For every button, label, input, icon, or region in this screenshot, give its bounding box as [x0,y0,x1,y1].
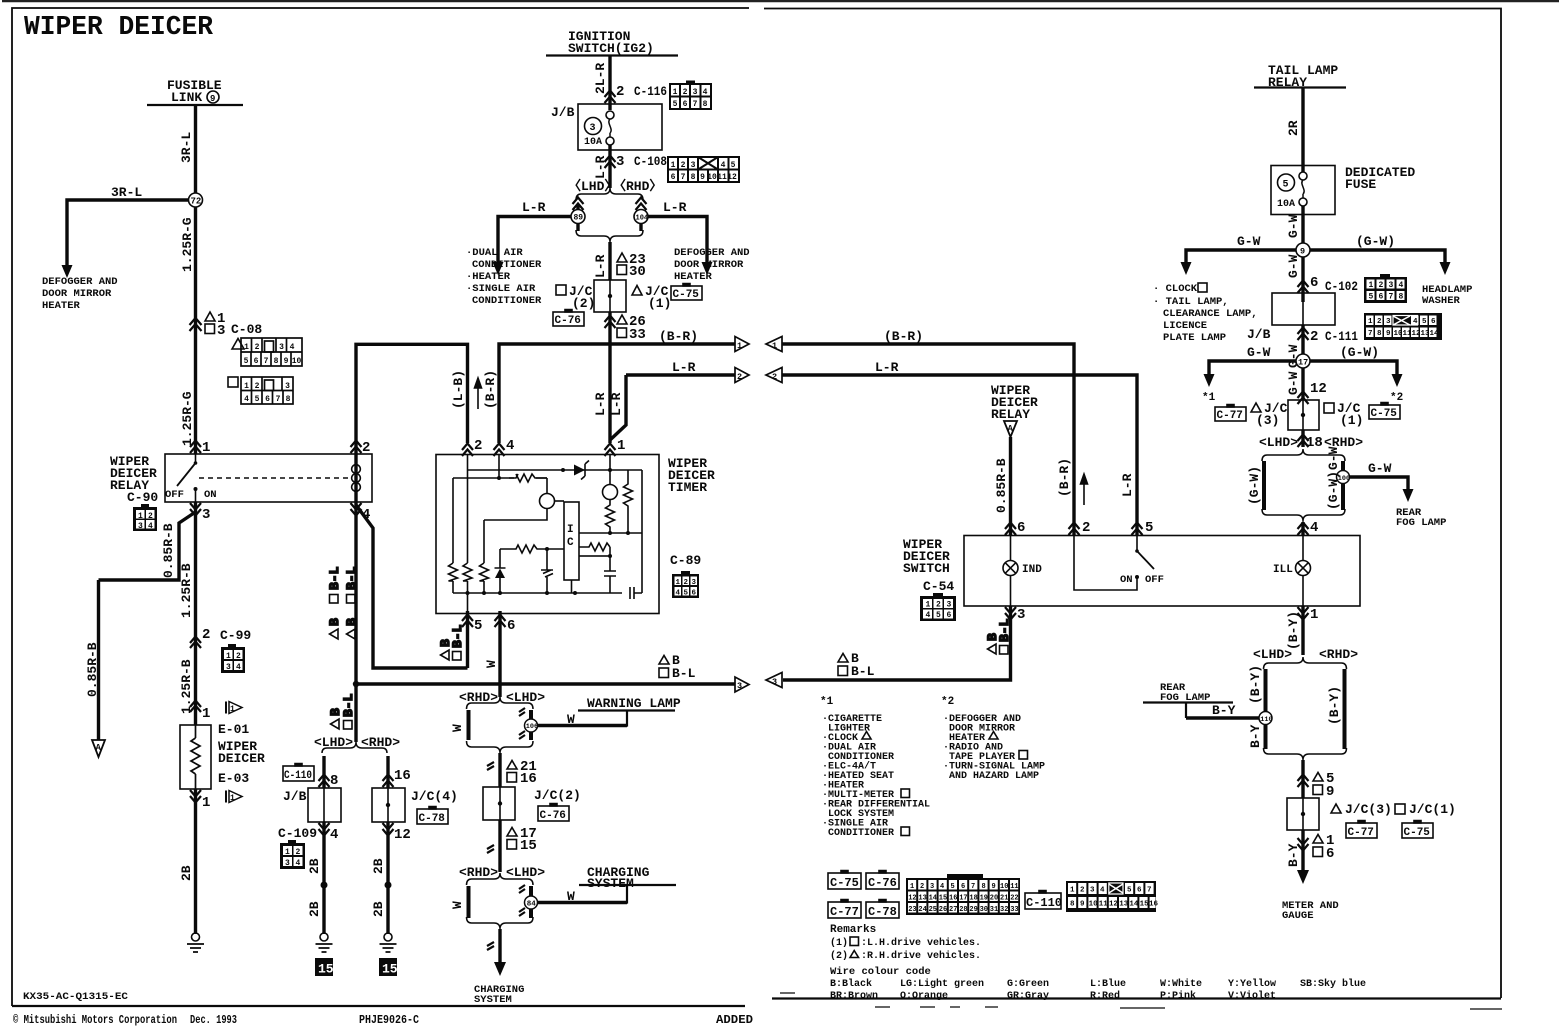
svg-text:7: 7 [1368,330,1373,338]
svg-text:1: 1 [244,343,249,352]
node 100 junction [1337,471,1350,484]
svg-text:W: W [450,901,465,909]
brace split [608,182,611,188]
svg-text:KX35-AC-Q1315-EC: KX35-AC-Q1315-EC [23,991,129,1003]
connector tag C-75 [671,284,702,301]
node 104 junction [634,210,648,224]
svg-text:HEATER: HEATER [674,271,713,283]
svg-text:17: 17 [1298,358,1308,368]
wire (B-R) from arrow 1 [782,344,1074,535]
svg-text:ON: ON [1120,574,1133,586]
wire (G-W) LHD bar [1262,461,1266,510]
svg-text:15: 15 [939,895,947,903]
pin 1 chevrons at relay [190,441,201,454]
svg-text:ADDED: ADDED [716,1014,753,1027]
timer internal: top rail [468,455,643,471]
fuse 3 circled [585,118,602,135]
svg-text:FOG LAMP: FOG LAMP [1396,517,1446,529]
svg-text:*2: *2 [941,696,954,708]
svg-text:2: 2 [474,438,482,454]
wire 3R-L vertical [194,105,197,454]
svg-text:G-W: G-W [1247,345,1271,360]
node 110 junction [1259,712,1272,725]
svg-text:CONDITIONER: CONDITIONER [472,295,542,307]
arrow to defogger [62,265,73,278]
svg-text:W: W [567,889,575,904]
svg-text:72: 72 [191,197,202,207]
svg-text:7: 7 [1389,293,1394,302]
svg-text:23: 23 [908,906,916,914]
wire 2R [1301,88,1304,166]
svg-text:7: 7 [264,357,269,366]
svg-text:1: 1 [1070,887,1075,895]
svg-text:R:Red: R:Red [1090,990,1120,1002]
right page frame [764,9,1501,999]
svg-text:2B: 2B [307,901,322,917]
svg-text:*1: *1 [1202,392,1216,404]
svg-text:4: 4 [330,827,338,843]
node 72 junction [189,193,203,207]
svg-text:SYSTEM: SYSTEM [474,994,512,1006]
connector C-08 grid A [241,338,302,366]
svg-text:(B-Y): (B-Y) [1286,611,1301,650]
svg-text:(B-Y): (B-Y) [1327,686,1342,725]
svg-text:2B: 2B [371,901,386,917]
wire B-Y LHD bar lower [1264,725,1268,749]
connector C-90 grid [133,504,157,531]
wire W RHD bar lower charging [529,909,533,918]
svg-text:2: 2 [681,161,686,170]
svg-text:3: 3 [947,601,952,610]
svg-text:5: 5 [1145,520,1153,536]
svg-text:104: 104 [636,215,649,223]
svg-text:1: 1 [673,88,678,97]
svg-text:7: 7 [693,100,698,109]
left vertical 2 with resistor R4 [483,520,485,593]
svg-text:2L-R: 2L-R [593,63,608,94]
svg-text:PLATE LAMP: PLATE LAMP [1163,332,1226,344]
connector chevrons C-08 on wire [190,318,202,331]
svg-text:CLEARANCE LAMP,: CLEARANCE LAMP, [1163,308,1258,320]
svg-text:15: 15 [520,838,537,854]
thermistor leg [541,549,553,593]
wire G-W to rear fog lamp [1350,477,1409,490]
svg-text:4: 4 [1413,318,1418,326]
svg-text:8: 8 [1377,330,1382,338]
svg-text:15: 15 [318,962,334,977]
svg-text:B: B [327,618,342,626]
svg-text:C-75: C-75 [1371,408,1398,420]
square after MULTI-METER [901,789,910,798]
svg-text:6: 6 [692,590,697,598]
connector tag C-110 [283,764,314,782]
wire W RHD bar upper [529,710,533,719]
svg-text:(3): (3) [1256,413,1279,428]
svg-text:8: 8 [330,773,338,789]
triangle marker for C-08 grid A [232,339,244,350]
arrow out 3 right page [766,673,782,688]
svg-text:5: 5 [255,395,260,404]
svg-text:10A: 10A [584,137,602,148]
svg-text:84: 84 [527,901,537,909]
svg-text:I: I [567,524,574,536]
svg-text:<LHD>: <LHD> [506,865,545,880]
svg-text:4: 4 [721,161,726,170]
pin5 inner vertical [467,470,469,613]
svg-text:1: 1 [910,883,914,891]
svg-text:(1): (1) [1340,413,1363,428]
svg-text:6: 6 [265,395,270,404]
svg-text:18: 18 [1306,435,1323,451]
wire 0.85R-B to switch pin 6 [1009,437,1012,535]
svg-text:C-110: C-110 [1026,896,1062,910]
wire W to charging bracket [498,820,501,872]
svg-text:6: 6 [671,173,676,182]
svg-text:2: 2 [296,848,301,857]
label triangle J/C (3) [1251,403,1261,412]
triangle after CLOCK [862,732,871,740]
svg-text:6: 6 [947,611,952,620]
diode D2 on pin6 branch [495,549,506,593]
svg-text:9: 9 [210,94,215,104]
svg-text:(B-R): (B-R) [1057,458,1072,497]
arrow to charging system [494,962,506,976]
svg-text:(L-B): (L-B) [451,370,466,409]
svg-text:1: 1 [1369,281,1374,290]
wire B/B-L from pin 3 [783,606,1011,680]
svg-text:LG:Light green: LG:Light green [900,978,984,990]
svg-text:4: 4 [1399,281,1404,290]
node A triangle [92,740,105,757]
svg-text:C-78: C-78 [419,813,446,825]
svg-text:B-L: B-L [327,566,342,590]
svg-text:1: 1 [202,706,210,722]
svg-text:B: B [344,618,359,626]
square after CONDITIONER last [901,827,910,836]
svg-text:3: 3 [138,522,143,531]
svg-text:3: 3 [202,507,210,523]
svg-text:GR:Gray: GR:Gray [1007,991,1049,1002]
svg-text:E-01: E-01 [218,722,249,737]
svg-text:1: 1 [737,341,742,351]
wire G-W to node 9 [1301,215,1304,303]
brace merge warning [467,741,534,753]
label triangle 1 bottom [1313,835,1323,844]
label square J/C (1) [1324,403,1334,413]
svg-text:C-77: C-77 [830,905,859,919]
wire 2L-R [608,56,611,105]
svg-text:29: 29 [969,906,977,914]
svg-text:33: 33 [1010,906,1018,914]
svg-text:4: 4 [1100,887,1105,895]
svg-text:C-102: C-102 [1325,279,1358,294]
svg-text:4: 4 [1310,520,1318,536]
wire L-R JC to timer pin1 [608,312,611,443]
arrow out 3 [735,677,749,692]
svg-text:25: 25 [929,906,937,914]
label triangle 21 [507,761,517,770]
svg-text:2: 2 [1379,281,1384,290]
svg-text:(G-W): (G-W) [1326,471,1341,510]
connector C-109 grid [280,840,305,869]
svg-text:2: 2 [1310,329,1318,345]
svg-text:5: 5 [731,161,736,170]
wire (B-Y) from pin 1 [1301,606,1304,655]
connector C-116 grid [670,82,711,110]
svg-text:W: W [567,712,575,727]
svg-text:C-77: C-77 [1217,410,1243,422]
svg-text:1: 1 [772,341,777,351]
svg-text:10: 10 [1000,883,1008,891]
svg-text:9: 9 [700,173,705,182]
svg-text:3: 3 [772,677,777,687]
svg-text:HEATER: HEATER [42,300,81,312]
svg-text:3: 3 [737,681,742,691]
svg-text:Remarks: Remarks [830,924,876,936]
wire (G-W) right branch 17 [1310,361,1397,375]
svg-text:2: 2 [236,652,241,661]
svg-text:1: 1 [230,705,235,714]
wire 0.85R-B branch from relay pin 3 [99,512,196,580]
relay coil [355,454,357,464]
svg-text:4: 4 [676,590,681,598]
rear fog lamp feed line [1143,703,1233,719]
svg-text:Y:Yellow: Y:Yellow [1228,978,1276,990]
wire (L-B) from relay pin2 [356,344,468,502]
flow arrow up [475,378,482,409]
left vertical with resistor R2 [453,478,547,593]
switch link to pin 2 [1074,536,1137,591]
svg-text:· TAIL LAMP,: · TAIL LAMP, [1153,296,1229,308]
node 17 junction [1296,354,1310,368]
node 106 junction [525,719,538,732]
svg-text:12: 12 [908,895,916,903]
svg-text:C-77: C-77 [1348,827,1374,839]
svg-text:14: 14 [929,895,937,903]
svg-text:<RHD>: <RHD> [1319,647,1358,662]
brace merge below 89/104 [578,223,641,231]
svg-text:8: 8 [274,357,279,366]
dedicated fuse box [1271,166,1335,215]
wire (G-W) RHD bar lower [1341,484,1345,510]
svg-text:15: 15 [1140,901,1150,909]
svg-text:G-W: G-W [1286,214,1301,238]
svg-text:0.85R-B: 0.85R-B [85,642,100,697]
svg-text:C-111: C-111 [1325,329,1358,344]
svg-text:12: 12 [1310,381,1327,397]
arrow in 1 [766,337,782,352]
svg-text:WIPER DEICER: WIPER DEICER [24,13,214,43]
svg-text:C-90: C-90 [127,490,158,505]
junction J/C box B-Y [1287,798,1319,830]
svg-text:5: 5 [1422,318,1427,326]
svg-text:1: 1 [244,382,249,391]
svg-text:3: 3 [691,161,696,170]
chevron [487,845,494,853]
wire below JC with chevrons [1301,430,1304,447]
svg-text:OFF: OFF [1145,574,1164,586]
wire 0.85R-B drop to A [97,580,100,740]
svg-text:1: 1 [926,601,931,610]
svg-text:17: 17 [959,895,967,903]
svg-text:B-Y: B-Y [1248,724,1263,748]
transistor Q1 [540,494,555,509]
svg-text:C: C [567,537,574,549]
svg-text:1.25R-B: 1.25R-B [179,563,194,618]
svg-text:C-108: C-108 [634,154,667,169]
svg-text:32: 32 [1000,906,1008,914]
svg-text:C-89: C-89 [670,553,701,568]
svg-text:O:Orange: O:Orange [900,991,948,1002]
svg-text:31: 31 [990,906,998,914]
svg-text:*2: *2 [1390,392,1403,404]
svg-text:SWITCH(IG2): SWITCH(IG2) [568,41,654,56]
svg-text:C-54: C-54 [923,579,954,594]
svg-text:PHJE9026-C: PHJE9026-C [359,1014,419,1027]
ground symbol LHD [320,933,328,941]
svg-text:3R-L: 3R-L [111,185,142,200]
connector C-111 grid [1364,313,1442,340]
svg-text:J/B: J/B [283,789,307,804]
label column square B-L at pin3 [997,618,1012,654]
svg-text:5: 5 [673,100,678,109]
svg-text:TIMER: TIMER [668,480,707,495]
fusible link circled 9 [207,91,219,103]
chevrons LHD branch [573,198,584,211]
wire 3R-L branch to defogger [67,200,196,266]
wire 1.25R-B main [194,502,197,725]
wire W to charging system [498,929,501,964]
connector tag C-77 bottom [1346,821,1377,839]
node junction dot on line3 [353,681,359,687]
svg-text:BR:Brown: BR:Brown [830,991,878,1002]
label column triangle B below dot [328,708,343,729]
svg-text:AND HAZARD LAMP: AND HAZARD LAMP [949,771,1039,782]
label column square B-L below dot [341,693,356,729]
svg-text:L-R: L-R [593,155,608,179]
ground E-01 symbol [192,933,200,941]
svg-text:3: 3 [1017,607,1025,623]
node 9 junction [1296,243,1310,257]
svg-text:110: 110 [1260,716,1272,724]
svg-text:C-76: C-76 [555,315,581,327]
svg-text:6: 6 [961,883,965,891]
wire to node 89 [576,204,579,210]
svg-text:G-W: G-W [1286,371,1301,395]
svg-text:B-L: B-L [672,666,696,681]
label triangle B on line3 [659,656,669,665]
svg-text:5: 5 [244,357,249,366]
svg-text:J/C(2): J/C(2) [534,788,581,803]
wire LHD to J/B [322,756,325,788]
svg-text:C-110: C-110 [284,770,312,782]
svg-text:G-W: G-W [1286,254,1301,278]
svg-text:2: 2 [362,440,370,456]
svg-text:21: 21 [1000,895,1008,903]
resistor wiper deicer box [180,725,211,789]
svg-text:(G-W): (G-W) [1340,345,1379,360]
svg-text:B-L: B-L [344,566,359,590]
svg-text:1: 1 [285,848,290,857]
svg-text:2B: 2B [371,858,386,874]
warning lamp feed line [538,711,676,726]
arrow to meter and gauge [1297,870,1309,884]
wire W RHD bar upper charging [529,886,533,896]
svg-text:L-R: L-R [593,392,608,416]
svg-text:L-R: L-R [1120,473,1135,497]
label column triangle B square B-L (wire B-L straight) [327,566,342,639]
svg-text:3: 3 [693,88,698,97]
wire B-L straight from relay pin4 [354,502,357,684]
svg-text:© Mitsubishi Motors Corporatio: © Mitsubishi Motors Corporation [13,1014,177,1027]
svg-text:1: 1 [1368,318,1373,326]
wire (B-R) bus line 1 [499,344,736,443]
svg-text:4: 4 [703,88,708,97]
svg-text:5: 5 [474,618,482,634]
svg-text:SWITCH: SWITCH [903,561,950,576]
label square B-L on line3 right [838,666,848,676]
connector tag C-110 row [1025,891,1061,910]
junction dot RHD [385,882,392,889]
svg-text:15: 15 [382,962,398,977]
pin 5 below timer [466,611,469,668]
svg-text:(2): (2) [830,950,848,962]
svg-text:L-R: L-R [593,254,608,278]
svg-text:CONDITIONER: CONDITIONER [472,259,542,271]
wire (G-W) right branch [1310,250,1445,263]
node E-03 arrow [225,791,227,803]
svg-text:28: 28 [959,906,967,914]
svg-text:C-08: C-08 [231,322,262,337]
svg-text:B-L: B-L [341,693,356,717]
svg-text:J/C(3): J/C(3) [1345,802,1392,817]
svg-text:16: 16 [394,768,411,784]
svg-text:2: 2 [1082,520,1090,536]
pin 6 below timer [498,611,501,685]
svg-text:2: 2 [1377,318,1382,326]
wire B-L below dot [354,684,357,742]
ground symbol RHD [384,933,392,941]
svg-text:L-R: L-R [663,200,687,215]
svg-text:24: 24 [918,906,926,914]
svg-text:1: 1 [202,795,210,811]
brace split warning [498,685,501,697]
label triangle B on line3 right [838,654,848,663]
resistor R6 right [624,470,633,533]
scan dashes bottom right [780,993,1502,1009]
connector tag C-76 [538,804,569,822]
fuse 5 circled [1278,174,1295,191]
svg-text:2: 2 [255,382,260,391]
svg-text:3: 3 [226,663,231,672]
brace merge charging [467,917,534,929]
arrow in 2 [766,368,782,383]
wire B-Y to JC [1301,760,1304,798]
wire (B-Y) LHD bar upper [1264,669,1268,711]
svg-text:9: 9 [1386,330,1391,338]
svg-text:3: 3 [1386,318,1391,326]
svg-text:L-R: L-R [609,392,624,416]
svg-text:3: 3 [692,579,697,587]
svg-text:3R-L: 3R-L [179,132,194,163]
svg-text:DOOR MIRROR: DOOR MIRROR [674,259,744,271]
svg-text:(2): (2) [572,296,595,311]
svg-text:(G-W): (G-W) [1356,234,1395,249]
horizontal resistor R3 [516,474,547,482]
svg-text:11: 11 [1099,901,1109,909]
svg-text:<LHD>: <LHD> [1253,647,1292,662]
pin 3 chevrons [190,503,201,516]
